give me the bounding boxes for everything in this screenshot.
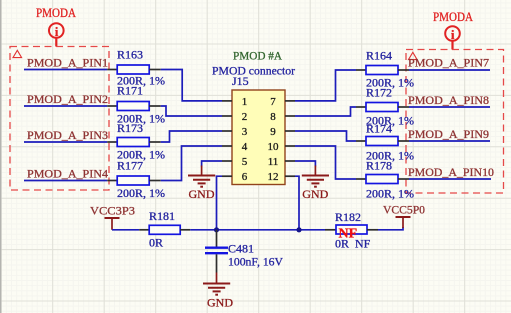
info symbol (right, circled i): [445, 26, 460, 49]
svg-text:R174: R174: [366, 122, 392, 136]
wire J15 pin 8 to R172: [295, 107, 356, 116]
resistor R174: [356, 122, 414, 163]
harness/sheet-entry dashed box (right): [406, 50, 504, 194]
marker triangle (right box): [409, 52, 418, 59]
pin 4 lead: [222, 145, 232, 147]
harness/sheet-entry dashed box (left): [10, 47, 109, 191]
wire J15 pin 7 to R164: [295, 70, 356, 101]
svg-text:R164: R164: [366, 49, 392, 63]
svg-text:R163: R163: [117, 48, 143, 62]
resistor R173: [107, 121, 165, 162]
connector J15: [232, 74, 285, 185]
svg-text:12: 12: [268, 171, 279, 183]
svg-text:PMOD_A_PIN8: PMOD_A_PIN8: [408, 93, 489, 107]
svg-text:PMOD_A_PIN9: PMOD_A_PIN9: [408, 127, 489, 141]
svg-text:100nF, 16V: 100nF, 16V: [228, 255, 283, 269]
pin 6 lead: [222, 175, 232, 177]
wire J15 pin 10 to R178: [295, 146, 356, 179]
svg-text:PMOD_A_PIN1: PMOD_A_PIN1: [27, 56, 108, 70]
wire R164 to port PIN7: [409, 69, 490, 71]
svg-text:0R: 0R: [335, 237, 349, 251]
svg-text:9: 9: [270, 126, 276, 138]
wire R182 to VCC5P0: [378, 227, 403, 230]
svg-text:200R, 1%: 200R, 1%: [366, 187, 414, 201]
svg-text:PMOD_A_PIN4: PMOD_A_PIN4: [27, 167, 108, 181]
resistor R164: [356, 49, 414, 90]
info symbol (left, circled i): [49, 23, 64, 46]
power VCC5P0: [383, 203, 425, 229]
svg-text:7: 7: [270, 96, 276, 108]
svg-text:GND: GND: [189, 187, 215, 201]
pin 11 lead: [285, 160, 295, 162]
svg-text:4: 4: [242, 141, 248, 153]
svg-text:2: 2: [242, 111, 248, 123]
svg-text:R182: R182: [335, 210, 361, 224]
svg-text:8: 8: [270, 111, 276, 123]
wire R163 to J15 pin 1: [161, 70, 222, 101]
pin 8 lead: [285, 115, 295, 117]
pin 2 lead: [222, 115, 232, 117]
svg-text:PMODA: PMODA: [433, 10, 473, 24]
wire R173 to J15 pin 3: [161, 131, 222, 142]
svg-text:GND: GND: [302, 187, 328, 201]
wire PIN3 to R173: [24, 141, 107, 143]
svg-text:10: 10: [268, 141, 280, 153]
svg-text:C481: C481: [228, 242, 254, 256]
wire R171 to J15 pin 2: [161, 106, 222, 116]
svg-text:VCC5P0: VCC5P0: [383, 203, 425, 217]
wire PIN1 to R163: [24, 69, 107, 71]
pin 9 lead: [285, 130, 295, 132]
resistor R178: [356, 159, 414, 201]
wire J15 pin 9 to R174: [295, 131, 356, 141]
svg-text:PMOD_A_PIN10: PMOD_A_PIN10: [408, 165, 494, 179]
resistor R177: [107, 159, 165, 201]
wire R174 to port PIN9: [409, 140, 490, 142]
pin 3 lead: [222, 130, 232, 132]
harness label PMODA (right): [433, 10, 473, 24]
svg-text:5: 5: [242, 156, 248, 168]
svg-text:GND: GND: [207, 296, 233, 310]
wire VCC3P3 to R181: [112, 229, 139, 231]
pin 10 lead: [285, 145, 295, 147]
ground GND (left of J15): [188, 166, 215, 202]
svg-text:200R, 1%: 200R, 1%: [117, 186, 165, 200]
capacitor C481: [205, 230, 283, 273]
svg-text:i: i: [55, 24, 59, 39]
svg-text:11: 11: [268, 156, 279, 168]
wire R177 to J15 pin 4: [161, 146, 222, 181]
resistor R171: [107, 84, 165, 126]
svg-text:PMOD_A_PIN2: PMOD_A_PIN2: [27, 92, 108, 106]
wire J15 pin 12 to VCC rail: [295, 176, 299, 230]
wire R178 to port PIN10: [409, 178, 491, 180]
svg-text:PMOD_A_PIN7: PMOD_A_PIN7: [408, 56, 489, 70]
resistor R181: [139, 209, 190, 250]
svg-text:PMOD_A_PIN3: PMOD_A_PIN3: [27, 128, 108, 142]
power VCC3P3: [90, 204, 135, 230]
wire J15 pin 11 to ground: [295, 161, 315, 167]
junction at pin 12 branch: [296, 227, 301, 232]
resistor R163: [107, 48, 165, 88]
svg-text:NF: NF: [355, 237, 371, 251]
pin 5 lead: [222, 160, 232, 162]
pin 1 lead: [222, 100, 232, 102]
resistor R182 (not fitted): [325, 210, 378, 251]
resistor R172: [356, 86, 414, 128]
ground GND (below C481): [203, 273, 233, 310]
svg-text:1: 1: [242, 96, 248, 108]
svg-text:R181: R181: [149, 209, 175, 223]
svg-text:6: 6: [242, 171, 248, 183]
svg-text:PMODA: PMODA: [36, 6, 76, 20]
svg-text:VCC3P3: VCC3P3: [90, 204, 135, 218]
wire PIN2 to R171: [24, 105, 107, 107]
svg-text:i: i: [451, 27, 455, 42]
svg-text:0R: 0R: [149, 236, 163, 250]
pin 12 lead: [285, 175, 295, 177]
wire J15 pin 5 to ground: [202, 161, 222, 167]
junction at C481: [214, 227, 219, 232]
pin 7 lead: [285, 100, 295, 102]
ground GND (right of J15): [302, 166, 329, 202]
wire PIN4 to R177: [24, 180, 107, 182]
wire R172 to port PIN8: [409, 106, 490, 108]
marker triangle (left box): [13, 50, 22, 57]
wire J15 pin 6 to VCC rail: [217, 176, 223, 230]
svg-text:R173: R173: [117, 121, 143, 135]
svg-text:PMOD #A: PMOD #A: [233, 49, 282, 63]
harness label PMODA (left): [36, 6, 76, 20]
svg-text:3: 3: [242, 126, 248, 138]
svg-text:R171: R171: [117, 84, 143, 98]
svg-text:R178: R178: [366, 159, 392, 173]
svg-text:J15: J15: [232, 74, 249, 88]
wire VCC rail R181 to R182: [190, 229, 325, 231]
svg-text:R172: R172: [366, 86, 392, 100]
svg-text:R177: R177: [117, 159, 143, 173]
svg-text:PMOD connector: PMOD connector: [212, 64, 295, 78]
